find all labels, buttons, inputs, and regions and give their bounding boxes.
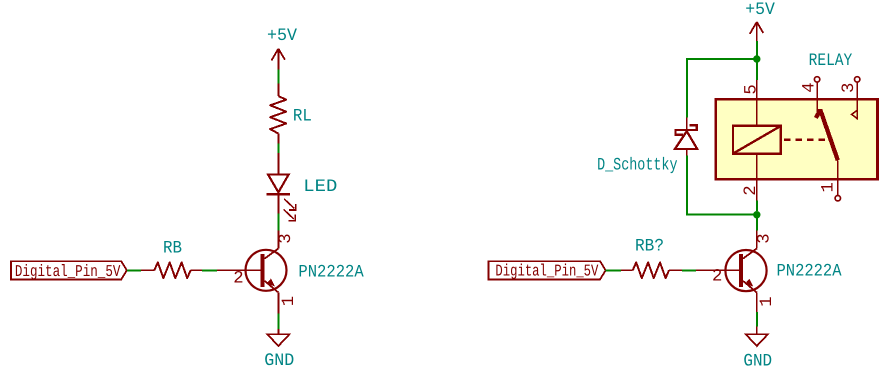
wire label to RB	[127, 269, 141, 271]
relay switch blade	[816, 110, 838, 161]
wire +5V to node A	[756, 41, 758, 56]
svg-text:RELAY: RELAY	[809, 51, 853, 71]
LED	[267, 153, 338, 221]
svg-text:RL: RL	[293, 107, 312, 127]
svg-text:D_Schottky: D_Schottky	[597, 155, 677, 175]
svg-text:2: 2	[233, 269, 243, 288]
svg-text:2: 2	[742, 185, 761, 195]
power +5V (right)	[745, 0, 775, 41]
relay pin 5	[743, 80, 762, 99]
ground (left)	[264, 329, 294, 371]
svg-text:5: 5	[743, 84, 762, 94]
wire relay pin 2 to node B	[756, 201, 758, 211]
ground (right)	[743, 327, 772, 372]
wire +5V to RL	[277, 70, 279, 84]
svg-text:PN2222A: PN2222A	[777, 262, 842, 282]
label Digital_Pin_5V (left)	[11, 261, 127, 281]
relay coil	[733, 99, 781, 179]
wire node A to D_Schottky cathode	[687, 59, 757, 118]
transistor Q2 PN2222A (right)	[696, 231, 842, 312]
svg-text:1: 1	[280, 296, 299, 306]
wire RL to LED	[277, 144, 279, 154]
svg-text:Digital_Pin_5V: Digital_Pin_5V	[495, 262, 598, 281]
svg-text:3: 3	[840, 83, 859, 93]
svg-text:RB: RB	[163, 238, 182, 258]
svg-text:4: 4	[800, 82, 819, 92]
svg-text:GND: GND	[264, 351, 294, 371]
transistor Q1 PN2222A (left)	[217, 231, 364, 314]
wire D_Schottky anode to node B	[687, 156, 757, 215]
power +5V (left)	[267, 26, 297, 69]
svg-text:1: 1	[758, 296, 777, 306]
svg-text:+5V: +5V	[267, 26, 297, 46]
relay pin 1	[820, 160, 841, 201]
resistor RL	[270, 84, 312, 144]
svg-text:RB?: RB?	[635, 236, 664, 256]
svg-text:2: 2	[712, 268, 722, 287]
wire RB to Q1 base	[202, 269, 217, 271]
svg-text:1: 1	[820, 182, 839, 192]
relay pin 3	[840, 77, 860, 120]
relay dashed actuator line	[784, 138, 828, 140]
relay K1 body	[716, 99, 878, 179]
resistor RB	[141, 238, 202, 278]
wire node B to Q2 collector	[756, 215, 758, 231]
wire LED to Q1 collector	[277, 214, 279, 231]
resistor RB?	[621, 236, 682, 278]
relay pin 4	[800, 77, 819, 114]
svg-text:3: 3	[756, 233, 775, 243]
wire label to RB?	[606, 269, 622, 271]
node B junction	[753, 211, 760, 218]
wire Q2 emitter to GND	[756, 312, 758, 327]
svg-text:PN2222A: PN2222A	[298, 263, 364, 283]
wire RB? to Q2 base	[682, 269, 696, 271]
svg-text:GND: GND	[743, 352, 772, 372]
node A junction	[753, 55, 760, 62]
wire node A to relay pin 5	[756, 59, 758, 80]
label Digital_Pin_5V (right)	[488, 261, 605, 280]
svg-text:3: 3	[277, 233, 296, 243]
svg-text:+5V: +5V	[745, 0, 775, 20]
diode D_Schottky	[597, 118, 697, 176]
svg-text:Digital_Pin_5V: Digital_Pin_5V	[15, 262, 121, 281]
wire Q1 emitter to GND	[277, 313, 279, 329]
svg-text:LED: LED	[303, 177, 337, 197]
relay pin 2	[742, 179, 761, 201]
